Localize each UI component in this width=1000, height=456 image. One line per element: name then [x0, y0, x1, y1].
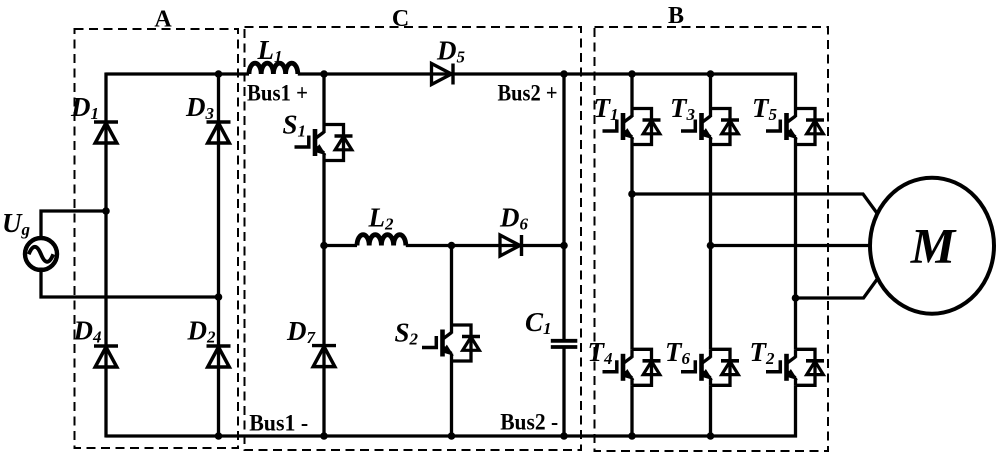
IGBT S2: [422, 325, 480, 361]
svg-text:Bus1 +: Bus1 +: [247, 81, 308, 107]
svg-text:A: A: [154, 7, 172, 33]
node D7 bottom: [320, 432, 328, 440]
diode D4: [94, 346, 118, 367]
inductor L2: [357, 235, 406, 246]
wire S2 leg upper: [450, 246, 453, 326]
capacitor C1: [551, 341, 578, 347]
IGBT T3: [681, 109, 739, 145]
dashed box A: [75, 29, 239, 448]
wire S2 leg lower: [450, 361, 453, 436]
diode D7: [312, 346, 336, 367]
svg-text:T1: T1: [594, 93, 619, 124]
IGBT T2: [766, 349, 824, 385]
IGBT T6: [681, 349, 739, 385]
wire inverter leg 2: [709, 74, 712, 436]
node leg2 bottom: [707, 432, 715, 440]
dashed box C: [245, 27, 582, 450]
diode D2: [207, 346, 231, 367]
wire phase A to motor: [632, 194, 878, 215]
node bridge top: [215, 70, 223, 78]
svg-text:S2: S2: [395, 318, 419, 349]
wire inverter leg 3: [794, 73, 797, 438]
diode D5: [432, 64, 454, 85]
wire bridge left leg: [104, 73, 107, 438]
svg-text:M: M: [910, 218, 957, 274]
wire inverter leg 1: [630, 74, 633, 436]
svg-text:L2: L2: [368, 203, 395, 234]
node Bus2+: [560, 70, 568, 78]
node leg1 top: [628, 70, 636, 78]
svg-text:Bus2 -: Bus2 -: [500, 410, 558, 436]
node leg2 top: [707, 70, 715, 78]
inductor L1: [249, 63, 298, 74]
node source top: [102, 207, 110, 215]
node source bottom: [215, 293, 223, 301]
AC source Ug: [25, 238, 57, 270]
svg-text:S1: S1: [283, 110, 307, 141]
node Bus2-: [560, 432, 568, 440]
node leg1 bottom: [628, 432, 636, 440]
svg-text:D7: D7: [286, 316, 317, 347]
node S2 bottom: [448, 432, 456, 440]
svg-text:D2: D2: [187, 316, 217, 347]
wire bridge right leg: [217, 73, 220, 438]
node phase A: [628, 190, 636, 198]
svg-text:D5: D5: [436, 36, 466, 67]
node phase B: [707, 242, 715, 250]
svg-text:T4: T4: [588, 337, 613, 368]
svg-text:T3: T3: [670, 93, 696, 124]
wire phase B to motor: [711, 244, 872, 247]
svg-text:L1: L1: [257, 35, 283, 66]
node D6 out: [560, 242, 568, 250]
svg-text:Ug: Ug: [2, 208, 31, 239]
svg-text:B: B: [668, 3, 684, 29]
diode D6: [500, 235, 522, 256]
svg-text:Bus1 -: Bus1 -: [249, 411, 308, 437]
IGBT T5: [766, 109, 824, 145]
svg-text:T5: T5: [752, 93, 778, 124]
node bridge bottom: [215, 432, 223, 440]
wire phase C to motor: [796, 278, 879, 298]
wire S1 leg upper: [322, 74, 325, 125]
dashed box B: [595, 27, 829, 451]
diode D3: [207, 122, 231, 143]
wire L2 row: [324, 244, 564, 247]
svg-text:T2: T2: [750, 337, 776, 368]
svg-text:D6: D6: [499, 203, 529, 234]
wire Bus2 rail lower: [562, 347, 565, 436]
svg-text:C: C: [392, 6, 409, 32]
node L2 right: [448, 242, 456, 250]
node L2 left: [320, 242, 328, 250]
svg-text:Bus2 +: Bus2 +: [498, 81, 558, 107]
svg-text:T6: T6: [665, 337, 691, 368]
wire source bottom lead: [41, 268, 219, 298]
node phase C: [792, 294, 800, 302]
svg-text:D1: D1: [70, 92, 99, 123]
node L1 out: [320, 70, 328, 78]
wire top rail Bus1+/Bus2+: [106, 72, 798, 75]
svg-text:D3: D3: [185, 92, 215, 123]
wire Bus2 rail upper: [562, 74, 565, 341]
IGBT T4: [603, 349, 661, 385]
wire bottom rail Bus1-/Bus2-: [106, 434, 798, 437]
svg-text:D4: D4: [73, 316, 102, 347]
svg-text:C1: C1: [525, 307, 552, 338]
IGBT S1: [295, 125, 353, 161]
wire source top lead: [41, 211, 106, 239]
IGBT T1: [603, 109, 661, 145]
diode D1: [94, 122, 118, 143]
motor M: [870, 178, 994, 314]
wire S1 to L2 node and D7 leg: [322, 161, 325, 437]
